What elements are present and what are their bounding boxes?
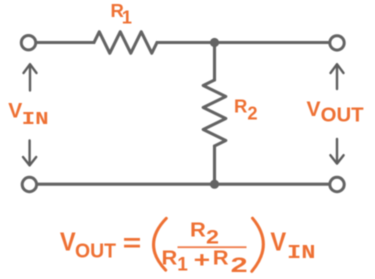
svg-text:R: R — [234, 96, 247, 117]
svg-text:+: + — [194, 247, 211, 272]
svg-text:R: R — [190, 219, 206, 242]
svg-text:V: V — [8, 100, 22, 123]
svg-text:1: 1 — [177, 254, 188, 275]
svg-text:=: = — [123, 230, 142, 258]
svg-text:2: 2 — [231, 253, 248, 277]
svg-text:IN: IN — [22, 109, 49, 130]
svg-text:V: V — [307, 98, 321, 121]
svg-text:OUT: OUT — [75, 241, 116, 263]
svg-text:V: V — [60, 229, 76, 257]
svg-text:2: 2 — [206, 227, 219, 249]
svg-text:V: V — [270, 229, 286, 257]
svg-text:2: 2 — [247, 103, 257, 124]
svg-text:R: R — [162, 247, 178, 270]
svg-text:1: 1 — [122, 6, 132, 27]
svg-text:IN: IN — [287, 242, 316, 264]
svg-text:R: R — [213, 247, 229, 270]
svg-text:OUT: OUT — [321, 104, 364, 126]
